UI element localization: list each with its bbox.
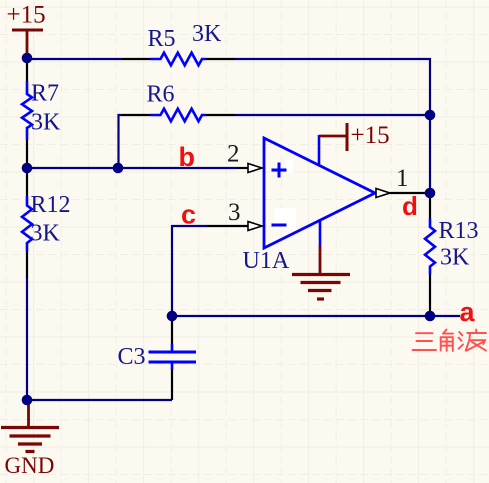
wire top rail from +15 node to R5 (27, 58, 122, 60)
svg-text:R12: R12 (31, 192, 71, 218)
junction +15 rail (22, 53, 33, 64)
pin 2 arrow (op-amp non-inverting input) (237, 164, 262, 173)
junction b row mid (113, 163, 124, 174)
resistor R5 (122, 53, 235, 66)
wire node b row to op-amp pin 2 (27, 167, 237, 169)
wire left rail lower segment to GND corner and to C3 bottom (27, 277, 172, 400)
svg-text:3K: 3K (440, 245, 470, 271)
svg-text:3K: 3K (31, 221, 61, 247)
pin 3 arrow (op-amp inverting input) (207, 222, 262, 231)
net label 三角波 (triangle wave) (413, 330, 486, 352)
resistor R7 (22, 59, 32, 168)
svg-text:C3: C3 (118, 344, 146, 370)
junction R6 right (425, 110, 436, 121)
pin 1 output arrow and wire to node d (376, 189, 430, 198)
svg-text:+15: +15 (7, 2, 46, 29)
svg-text:R13: R13 (439, 218, 479, 244)
svg-text:1: 1 (396, 165, 409, 192)
svg-text:R7: R7 (31, 81, 59, 107)
resistor R12 (22, 168, 32, 278)
svg-text:GND: GND (5, 453, 55, 478)
svg-text:d: d (402, 191, 418, 221)
capacitor C3 (149, 316, 197, 400)
svg-text:a: a (460, 297, 476, 327)
junction C3 top (167, 311, 178, 322)
wire bottom bus from C3 node to net a stub (172, 315, 460, 317)
power port +15 (op-amp V+) (319, 122, 390, 151)
ground symbol GND (bottom left) (1, 402, 59, 452)
wire R5 to right rail and down right rail (235, 59, 430, 193)
svg-text:c: c (181, 200, 196, 230)
junction bus right (425, 311, 436, 322)
svg-text:R5: R5 (148, 26, 176, 52)
svg-text:U1A: U1A (243, 248, 290, 274)
svg-text:3K: 3K (31, 110, 61, 136)
wire R6 corner to b row (119, 115, 123, 168)
junction node d (425, 188, 436, 199)
junction GND corner (22, 395, 33, 406)
resistor R13 (425, 193, 435, 316)
junction b row left (22, 163, 33, 174)
resistor R6 (122, 109, 235, 122)
power port +15 (top left) (7, 2, 46, 57)
svg-text:R6: R6 (147, 82, 175, 108)
svg-text:3: 3 (228, 199, 241, 226)
svg-text:+15: +15 (351, 122, 390, 149)
svg-text:2: 2 (227, 141, 240, 168)
svg-text:3K: 3K (192, 21, 222, 47)
wire R6 to right rail (235, 114, 430, 116)
wire c corner to op-amp pin 3 and down to C3 node (172, 226, 207, 316)
ground symbol (op-amp V-) (292, 246, 350, 299)
op-amp U1A (264, 135, 375, 248)
svg-text:b: b (179, 142, 196, 172)
